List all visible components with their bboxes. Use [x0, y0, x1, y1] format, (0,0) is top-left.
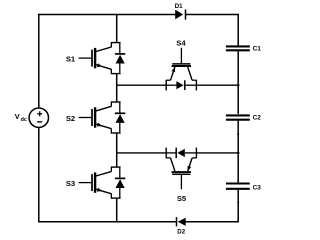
connection point dot on right rail below C2 [237, 133, 239, 135]
diode D1 cathode bar [185, 9, 187, 19]
junction dot S4/right rail [237, 84, 240, 87]
S2 collector stub [110, 102, 112, 107]
S5 gate bar [172, 173, 190, 175]
capacitor C1 top plate [226, 45, 250, 47]
S1 gate lead [79, 57, 92, 59]
S2 IGBT body bar [94, 107, 96, 127]
Vdc minus sign [37, 121, 42, 123]
wire: right rail C2-C3 segment [237, 120, 239, 183]
S3 antiparallel diode triangle [116, 179, 125, 188]
connection point dot on right rail below C3 [237, 202, 239, 204]
S4 right angled lead [188, 67, 192, 80]
wire: left rail lower (Vdc source down to bottom rail) [38, 127, 40, 222]
svg-text:C3: C3 [253, 185, 262, 192]
capacitor C3 top plate [226, 182, 250, 184]
svg-text:dc: dc [21, 117, 27, 123]
voltage source Vdc circle [29, 108, 48, 127]
S2 emitter arrow [97, 123, 102, 127]
capacitor C2 bottom plate [226, 119, 250, 121]
S1 bottom connector bar [111, 73, 121, 75]
S5 emitter arrow [188, 166, 192, 171]
capacitor C1 bottom plate [226, 49, 250, 51]
S2 collector angled lead [96, 106, 112, 111]
S2 bottom connector bar [111, 132, 121, 134]
S1 gate bar [91, 50, 93, 67]
svg-text:S4: S4 [176, 38, 186, 47]
S1 emitter stub [110, 69, 112, 74]
diode D2 cathode bar [176, 217, 178, 226]
S4 right ministub [192, 79, 196, 81]
wire: node B horizontal (center bus to S5) [117, 152, 167, 154]
S5 inline diode cathode bar [175, 148, 177, 158]
S3 emitter angled lead [96, 189, 112, 194]
S1 IGBT body bar [94, 48, 96, 68]
S3 emitter stub [110, 194, 112, 199]
wire: S4 to right rail [196, 84, 238, 86]
S3 gate lead [79, 182, 92, 184]
S3 top connector bar [111, 166, 121, 168]
S3 collector stub [110, 167, 112, 172]
S2 antiparallel diode cathode bar [115, 112, 125, 114]
S4 left connector bar [165, 80, 167, 91]
svg-text:S3: S3 [66, 179, 75, 188]
svg-text:C2: C2 [253, 115, 262, 122]
S1 emitter angled lead [96, 65, 112, 70]
S4 inline diode triangle [176, 81, 183, 89]
S1 collector stub [110, 42, 112, 47]
S1 antiparallel diode anode lead [119, 64, 121, 74]
S4 inline diode cathode bar [184, 80, 186, 90]
svg-text:C1: C1 [253, 46, 262, 53]
S5 left angled lead [171, 158, 175, 171]
S2 emitter stub [110, 129, 112, 134]
S2 antiparallel diode triangle [116, 114, 125, 123]
S4 gate lead [180, 48, 182, 64]
wire: right rail bottom (C3 to bottom rail) [237, 189, 239, 222]
wire: left rail upper (top rail down to Vdc source) [38, 14, 40, 108]
S3 emitter arrow [97, 188, 102, 192]
S3 collector angled lead [96, 171, 112, 176]
S5 rail segment right [185, 152, 197, 154]
wire: center bus S2-S3 segment [116, 133, 118, 167]
S4 right connector bar [195, 80, 197, 91]
S5 left ministub [166, 157, 170, 159]
S2 antiparallel diode anode lead [119, 123, 121, 133]
wire: top rail right segment (D1 cathode to C1) [186, 14, 239, 16]
S5 gate lead [180, 175, 182, 190]
diode D2 triangle [178, 218, 186, 226]
S4 left angled lead [171, 67, 175, 80]
S4 rail segment right [185, 84, 197, 86]
svg-text:D1: D1 [175, 3, 183, 10]
wire: S5 to right rail [196, 152, 238, 154]
wire: center bus S1-S2 segment [116, 74, 118, 102]
wire: center bus top (top rail to S1) [116, 14, 118, 43]
S2 emitter angled lead [96, 124, 112, 129]
svg-text:V: V [15, 112, 20, 121]
wire: bottom rail right segment (D2 anode to C3) [185, 221, 238, 223]
S4 IGBT body bar [172, 65, 191, 67]
S1 collector angled lead [96, 47, 112, 52]
S1 antiparallel diode cathode bar [115, 53, 125, 55]
svg-text:D2: D2 [177, 229, 185, 236]
S1 antiparallel diode triangle [116, 55, 125, 64]
wire: top rail left segment (Vdc+ to D1 anode) [38, 14, 175, 16]
S1 antiparallel diode cathode lead [119, 43, 121, 54]
diode D1 triangle [175, 10, 183, 19]
S5 left connector bar [165, 148, 167, 159]
S3 antiparallel diode anode lead [119, 188, 121, 198]
svg-text:S2: S2 [66, 114, 75, 123]
svg-text:S5: S5 [177, 194, 187, 203]
S1 top connector bar [111, 42, 121, 44]
S2 antiparallel diode cathode lead [119, 102, 121, 113]
S2 gate bar [91, 109, 93, 126]
svg-text:S1: S1 [66, 55, 76, 64]
Vdc plus sign [37, 113, 42, 115]
S4 rail segment left [166, 84, 176, 86]
wire: bottom rail left segment (Vdc- to D2 cathode) [38, 221, 176, 223]
S2 gate lead [79, 117, 92, 119]
S1 emitter arrow [97, 63, 102, 67]
S4 gate bar [172, 63, 190, 65]
S5 inline diode triangle [177, 149, 184, 157]
S3 antiparallel diode cathode bar [115, 177, 125, 179]
wire: center bus bottom (S3 to bottom rail) [116, 198, 118, 222]
S5 rail segment left [166, 152, 176, 154]
wire: right rail top (to C1) [237, 14, 239, 46]
wire: right rail C1-C2 segment [237, 51, 239, 114]
S3 IGBT body bar [94, 172, 96, 192]
S5 right connector bar [195, 148, 197, 159]
capacitor C2 top plate [226, 114, 250, 116]
S5 right ministub [192, 157, 196, 159]
S5 IGBT body bar [172, 171, 191, 173]
S3 gate bar [91, 174, 93, 191]
junction dot S5/right rail [237, 152, 240, 155]
S4 left ministub [166, 79, 170, 81]
wire: node A horizontal (center bus to S4) [117, 84, 167, 86]
S5 right angled lead [188, 158, 192, 171]
capacitor C3 bottom plate [226, 188, 250, 190]
S3 antiparallel diode cathode lead [119, 167, 121, 178]
S2 top connector bar [111, 101, 121, 103]
S3 bottom connector bar [111, 197, 121, 199]
S4 emitter arrow [171, 67, 175, 72]
